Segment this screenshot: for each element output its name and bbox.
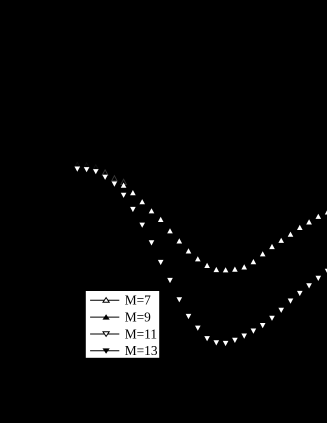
series M=9 filled up-triangle markers [121,183,327,273]
legend entry M=13: line, filled down-triangle, label [90,343,158,358]
legend entry M=7: line, open up-triangle, label [90,293,151,308]
svg-text:M=11: M=11 [125,326,157,341]
legend entry M=11: line, open down-triangle, label [90,326,157,341]
svg-text:M=13: M=13 [125,343,158,358]
svg-text:M=7: M=7 [125,293,151,308]
svg-text:M=9: M=9 [125,310,151,325]
series M=13 filled down-triangle markers [75,167,327,347]
series M=7 faint open up-triangle markers [75,162,127,184]
legend box [86,291,159,358]
legend entry M=9: line, filled up-triangle, label [90,310,151,325]
